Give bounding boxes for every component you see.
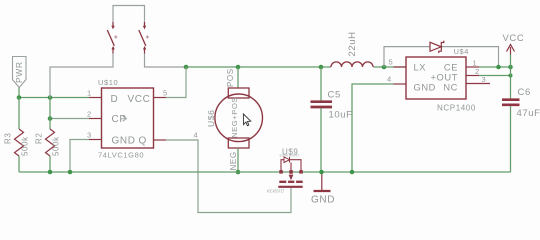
capacitor C5 (311, 67, 333, 172)
wire net Q to gate loop (166, 140, 291, 213)
svg-text:1: 1 (87, 89, 92, 98)
node junction LX/diode (382, 65, 387, 70)
label VCC (503, 33, 525, 44)
wire diode loop (384, 47, 430, 67)
svg-text:500k: 500k (21, 136, 30, 156)
ground symbol GND (314, 172, 331, 191)
pin 5 stub U$10 (154, 97, 167, 99)
svg-text:47uF: 47uF (517, 108, 540, 119)
node junction motor NEG/rail (236, 170, 241, 175)
wire net GND pin4 (352, 84, 394, 172)
pin 1 stub U$10 (89, 97, 102, 99)
supply flag PWR (13, 57, 27, 88)
svg-text:GND: GND (311, 195, 335, 206)
svg-text:10uF: 10uF (329, 110, 353, 121)
node junction VCC/CE (508, 65, 513, 70)
svg-text:74LVC1G80: 74LVC1G80 (98, 151, 144, 160)
pin number 3 (87, 131, 92, 140)
pin 4 stub U$10 (154, 139, 167, 141)
pin 3 stub U$4 (466, 83, 490, 85)
IC U$4 pin names (414, 62, 459, 92)
wire net D horizontal (19, 97, 89, 99)
svg-text:NEG: NEG (229, 151, 238, 170)
wire CE to VCC (479, 66, 511, 68)
wire net CP (50, 118, 89, 120)
svg-text:GND: GND (112, 136, 136, 147)
label C6 (518, 87, 531, 98)
svg-text:3: 3 (87, 131, 92, 140)
label 500k R3 (21, 136, 30, 156)
label 500k R2 (52, 136, 61, 156)
pin 4 stub U$4 (394, 83, 407, 85)
svg-text:4: 4 (194, 131, 199, 140)
label NEG (229, 151, 238, 170)
node junction R2 bottom (48, 170, 53, 175)
label 10uF (329, 110, 353, 121)
wire motor POS stub (237, 67, 239, 88)
diode D1 schottky (430, 41, 444, 54)
node junction D/PWR (17, 95, 22, 100)
node junction C5/GND (319, 170, 324, 175)
motor U$6 (215, 88, 263, 148)
pin number 1 (87, 89, 92, 98)
svg-text:4: 4 (387, 75, 392, 84)
capacitor C6 (502, 100, 520, 172)
label U$4 (454, 47, 470, 56)
wire VCC column (510, 55, 512, 99)
label U$6 (206, 110, 216, 127)
svg-text:POS: POS (226, 68, 235, 87)
svg-text:R3: R3 (4, 133, 13, 144)
svg-text:VCC: VCC (128, 94, 151, 105)
node junction rail/pin5 (184, 65, 189, 70)
svg-text:5: 5 (163, 89, 168, 98)
svg-text:C6: C6 (518, 87, 531, 98)
wire top rail POS (186, 66, 331, 68)
label R2 (35, 133, 44, 144)
label 22uH (347, 31, 358, 56)
svg-text:R2: R2 (35, 133, 44, 144)
svg-text:U$4: U$4 (454, 47, 470, 56)
pin 5 stub U$4 (394, 66, 407, 68)
svg-text:NCP1400: NCP1400 (437, 104, 476, 113)
pin number 4 U$4 (387, 75, 392, 84)
label U$9 name small (267, 188, 285, 193)
label U$9 (282, 147, 298, 156)
IC U$10 pin names (111, 94, 151, 147)
wire switch top loop (113, 6, 145, 27)
node junction gnd wire/rail (350, 170, 355, 175)
pin number 5 (163, 89, 168, 98)
svg-text:LX: LX (414, 62, 427, 72)
pin number 3 U$4 (482, 75, 487, 84)
svg-text:GND: GND (414, 83, 436, 93)
wire motor NEG stub (237, 148, 239, 172)
supply symbol VCC (507, 45, 515, 55)
svg-text:22uH: 22uH (347, 31, 358, 56)
node junction diode/CE (496, 65, 501, 70)
inductor L1 (331, 62, 373, 67)
label R3 (4, 133, 13, 144)
wire pin5 U$10 (166, 67, 186, 98)
svg-text:C5: C5 (328, 90, 341, 101)
node junction pin3 gnd (68, 170, 73, 175)
svg-text:+OUT: +OUT (431, 72, 458, 82)
svg-text:CE: CE (444, 62, 458, 72)
pin number 1 U$4 (473, 59, 478, 68)
svg-text:PWR: PWR (14, 61, 24, 83)
node junction CP/R2 (48, 116, 53, 121)
svg-text:U$10: U$10 (98, 78, 118, 87)
svg-text:3: 3 (482, 75, 487, 84)
wire net IC ground pin3 (70, 140, 89, 173)
resistor R2 (46, 98, 55, 173)
node junction rail/motor (236, 65, 241, 70)
svg-text:NC: NC (443, 83, 458, 93)
svg-text:VCC: VCC (503, 33, 525, 44)
svg-text:2: 2 (87, 110, 92, 119)
wire switch S2 bottom to rail (145, 54, 187, 68)
pin 3 stub U$10 (89, 139, 102, 141)
wire inductor to LX (374, 66, 407, 68)
svg-text:U$6: U$6 (206, 110, 216, 127)
svg-text:#DCMOSFET: #DCMOSFET (267, 188, 285, 193)
wire +OUT to VCC (479, 75, 511, 77)
wire switch S1 bottom to net D (50, 54, 113, 98)
label C5 (328, 90, 341, 101)
pin 1 stub U$4 (466, 66, 479, 68)
pin number 4 (194, 131, 199, 140)
IC U$4 NCP1400 box (406, 57, 466, 99)
svg-text:D: D (111, 94, 119, 105)
svg-text:2: 2 (475, 67, 480, 76)
node junction rail/C5 (319, 65, 324, 70)
node junction D/R2 (48, 95, 53, 100)
transistor U$9 mosfet (278, 157, 303, 187)
pin number 5 U$4 (389, 58, 394, 67)
svg-text:NEG+POS: NEG+POS (230, 97, 239, 138)
label GND (311, 195, 335, 206)
resistor R3 (15, 98, 24, 173)
pin number 2 U$4 (475, 67, 480, 76)
label 74LVC1G80 (98, 151, 144, 160)
label 47uF (517, 108, 540, 119)
label U$9 value small (280, 154, 300, 158)
label NEG+POS (230, 97, 239, 138)
switch S1 (107, 22, 117, 54)
wire bottom rail (19, 171, 511, 173)
label U$10 (98, 78, 118, 87)
pin number 2 (87, 110, 92, 119)
svg-text:SUPER-MOSFET: SUPER-MOSFET (280, 154, 300, 158)
label POS (226, 68, 235, 87)
node junction VCC/OUT (509, 74, 513, 78)
svg-text:500k: 500k (52, 136, 61, 156)
IC U$10 clock mark (123, 116, 127, 121)
svg-text:5: 5 (389, 58, 394, 67)
IC U$10 box (102, 88, 154, 148)
label NCP1400 (437, 104, 476, 113)
svg-text:Q: Q (139, 136, 147, 147)
switch S2 (139, 22, 149, 54)
pin 2 stub U$4 (466, 75, 479, 77)
pin 2 stub U$10 (89, 118, 102, 120)
mouse cursor (243, 114, 250, 126)
wire PWR stem (18, 88, 20, 98)
